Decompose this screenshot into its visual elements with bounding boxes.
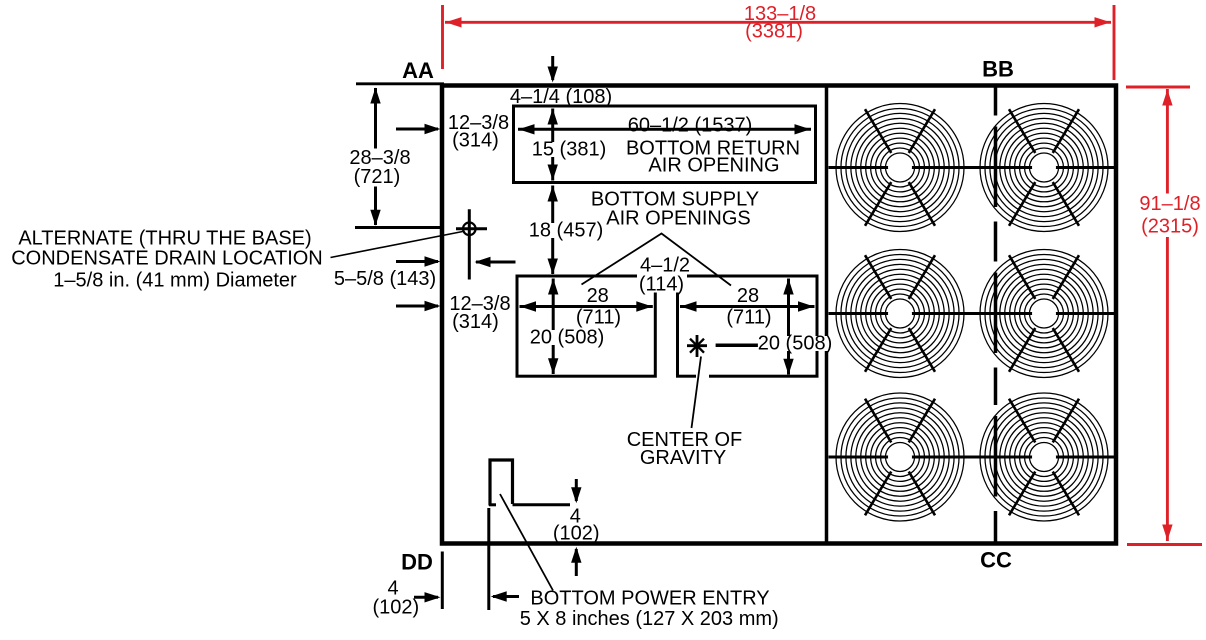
fan guard F4 mid-right [980, 250, 1108, 378]
fan guard F2 top-right [980, 104, 1108, 232]
dim text 20 (508) right [756, 333, 834, 355]
svg-text:18 (457): 18 (457) [529, 220, 604, 242]
arrow to left edge (12-3/8 bottom) [396, 301, 441, 311]
red extension tick left (133-1/8 dim) [441, 5, 444, 69]
svg-text:(314): (314) [452, 130, 499, 152]
dimension 18 vertical line [548, 186, 558, 275]
dim text 18 (457) [527, 220, 605, 242]
arrow to left edge (5-5/8) [396, 256, 441, 266]
power entry opening [490, 460, 513, 506]
svg-text:BB: BB [982, 57, 1014, 82]
fan hub H5 [888, 445, 912, 469]
svg-text:28: 28 [587, 285, 609, 307]
dimension 60-1/2 line [518, 124, 811, 134]
svg-text:5–5/8 (143): 5–5/8 (143) [334, 268, 436, 290]
fan guard F3 mid-left [836, 250, 964, 378]
svg-text:CONDENSATE DRAIN LOCATION: CONDENSATE DRAIN LOCATION [11, 247, 323, 269]
top-left extension line under AA [356, 82, 444, 85]
red extension tick bottom (91-1/8 dim) [1127, 543, 1202, 546]
svg-text:1–5/8 in. (41 mm) Diameter: 1–5/8 in. (41 mm) Diameter [53, 269, 297, 291]
supply opening rectangle right [678, 276, 818, 376]
svg-text:(102): (102) [553, 523, 600, 545]
svg-text:BOTTOM POWER ENTRY: BOTTOM POWER ENTRY [530, 587, 769, 609]
red extension tick top (91-1/8 dim) [1126, 86, 1190, 89]
dash from CG marker [716, 344, 758, 348]
svg-text:DD: DD [401, 550, 433, 575]
dimension 20 right vertical [783, 279, 793, 375]
svg-text:CC: CC [980, 548, 1012, 573]
fan hub H2 [1032, 156, 1056, 180]
drain centerline vertical [468, 209, 471, 279]
svg-text:20 (508): 20 (508) [758, 333, 833, 355]
center of gravity marker [687, 335, 707, 357]
leader line to drain [331, 232, 463, 258]
red dimension line 91-1/8 [1162, 89, 1172, 541]
red dimension line 133-1/8 [445, 17, 1111, 27]
svg-text:AIR OPENINGS: AIR OPENINGS [606, 208, 750, 230]
dimension 28-3/8 vertical line [370, 88, 380, 226]
drain centerline horizontal [456, 227, 487, 230]
svg-text:(2315): (2315) [1141, 216, 1199, 238]
fan hub H6 [1032, 445, 1056, 469]
V leader to supply openings [582, 234, 732, 286]
power entry bottom stub [489, 503, 496, 506]
svg-text:(314): (314) [452, 311, 499, 333]
red extension tick right (133-1/8 dim) [1113, 5, 1116, 80]
dimension 4-1/4 pointer [548, 56, 558, 83]
fan hub H1 [888, 156, 912, 180]
fan guard F1 top-left [836, 104, 964, 232]
fan row centerline 2 [829, 312, 1115, 315]
dim text 20 (508) left [528, 327, 606, 349]
arrow to left edge (12-3/8 top) [396, 124, 441, 134]
svg-text:15 (381): 15 (381) [532, 139, 607, 161]
arrow to drain line (5-5/8) [475, 257, 516, 267]
svg-text:AIR OPENING: AIR OPENING [648, 155, 779, 177]
svg-text:5 X 8 inches (127 X 203 mm): 5 X 8 inches (127 X 203 mm) [520, 608, 779, 630]
dimension 28 left line [520, 301, 653, 311]
svg-text:(102): (102) [372, 596, 419, 618]
svg-text:(721): (721) [354, 166, 401, 188]
fan section left boundary line [825, 88, 829, 542]
return air opening rectangle [514, 106, 816, 183]
dimension 20 left vertical [548, 279, 558, 375]
svg-text:20 (508): 20 (508) [530, 327, 605, 349]
leader line center of gravity [696, 374, 709, 379]
supply opening rectangle left [517, 276, 655, 376]
svg-text:AA: AA [402, 58, 434, 83]
extension line from power entry bottom [513, 503, 571, 506]
main unit outline [442, 86, 1116, 544]
fan hub H4 [1032, 302, 1056, 326]
svg-text:28: 28 [737, 285, 759, 307]
dimension 28 right line [680, 301, 815, 311]
svg-text:GRAVITY: GRAVITY [640, 447, 726, 469]
dimension 4 arrow to power entry line [491, 591, 519, 601]
dimension 15 vertical line [548, 109, 558, 181]
svg-text:ALTERNATE (THRU THE BASE): ALTERNATE (THRU THE BASE) [18, 227, 311, 249]
fan guard F6 bottom-right [980, 393, 1108, 521]
extension line below DD corner [441, 552, 444, 610]
svg-text:(711): (711) [726, 307, 771, 329]
fan row centerline 3 [829, 456, 1115, 459]
svg-text:(3381): (3381) [745, 21, 803, 43]
svg-text:91–1/8: 91–1/8 [1139, 193, 1200, 215]
fan guard F5 bottom-left [836, 393, 964, 521]
fan hub H3 [888, 302, 912, 326]
svg-text:(114): (114) [639, 274, 684, 296]
dimension 4 arrow to DD line [414, 592, 441, 602]
drain hole circle [463, 223, 476, 236]
fan column divider line (with halo gaps at ring crossings) [994, 88, 998, 542]
svg-text:(711): (711) [576, 307, 621, 329]
leader line power entry [500, 494, 553, 591]
dimension 4 up arrow (below) [571, 547, 581, 576]
dim text 28-3/8 (721) [348, 149, 412, 187]
dimension 4 down arrow (above) [571, 479, 581, 503]
dim text 15 (381) [530, 139, 608, 161]
extension line below power entry [487, 508, 490, 610]
extension line at drain level [355, 226, 442, 229]
svg-text:60–1/2 (1537): 60–1/2 (1537) [628, 114, 753, 136]
fan row centerline 1 [829, 166, 1115, 169]
